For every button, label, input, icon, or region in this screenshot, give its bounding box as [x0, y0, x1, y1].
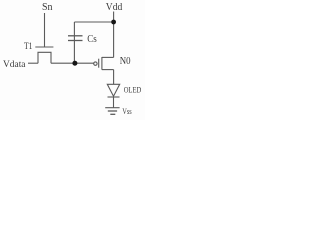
wire T1 drain to T2 gate: [51, 62, 94, 64]
svg-text:T1: T1: [24, 42, 33, 52]
wire T2 drain bottom: [102, 69, 114, 71]
wire Vdata lead: [28, 62, 38, 64]
svg-text:N0: N0: [120, 56, 131, 67]
wire Vdd stub: [113, 12, 115, 23]
capacitor Cs top plate: [68, 35, 83, 37]
capacitor Cs vertical lead: [73, 22, 75, 63]
wire T2 source top: [102, 56, 114, 58]
svg-text:Vss: Vss: [122, 107, 131, 116]
wire Sn scan line: [44, 13, 46, 47]
transistor T1 channel: [38, 52, 51, 63]
transistor T1 gate bar: [35, 46, 53, 48]
transistor T2 channel bar: [101, 57, 103, 70]
wire Vdd to T2 source: [113, 22, 115, 57]
wire OLED to Vss ground: [113, 97, 115, 108]
svg-text:Vdata: Vdata: [3, 59, 26, 70]
OLED diode triangle: [107, 84, 119, 96]
wire top rail Cs to Vdd: [74, 21, 113, 23]
wire T2 drain to OLED: [113, 70, 115, 85]
ground Vss bar 2: [108, 110, 117, 112]
svg-text:Sn: Sn: [42, 1, 53, 13]
ground Vss bar 3: [110, 113, 115, 115]
junction dot storage node N0: [72, 61, 77, 66]
svg-text:Vdd: Vdd: [106, 1, 123, 13]
capacitor Cs bottom plate: [68, 40, 83, 42]
svg-text:Cs: Cs: [87, 34, 97, 45]
ground Vss bar 1: [105, 107, 119, 109]
junction dot Vdd node: [111, 20, 116, 25]
svg-text:OLED: OLED: [124, 86, 142, 95]
transistor T2 gate bar: [98, 59, 100, 68]
OLED cathode bar: [108, 96, 120, 98]
transistor T2 gate bubble: [94, 62, 97, 65]
